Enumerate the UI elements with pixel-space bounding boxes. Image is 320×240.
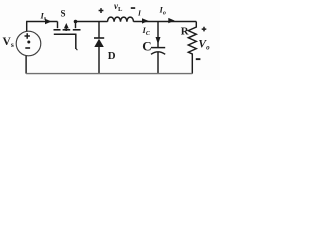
current arrow Io [168, 18, 175, 23]
current arrow I [142, 18, 149, 23]
resistor R [188, 22, 196, 74]
wire top rail right [134, 21, 197, 23]
capacitor top plate [151, 47, 165, 49]
body arrow [64, 23, 69, 28]
gate bar [54, 33, 77, 35]
voltage source Vs [16, 31, 41, 56]
channel segment 3 [73, 29, 81, 31]
Vs plus sign [25, 33, 30, 38]
svg-text:R: R [181, 25, 189, 37]
Vs minus sign [25, 47, 30, 49]
current arrow IC [156, 37, 161, 44]
Vs center dot [27, 41, 30, 44]
wire source bottom lead [25, 56, 27, 74]
diode cathode bar [94, 37, 104, 39]
svg-text:D: D [108, 50, 116, 62]
svg-text:S: S [61, 8, 66, 18]
label + of Vo [202, 27, 207, 32]
capacitor curved plate [151, 52, 165, 55]
label - of vL [131, 7, 135, 9]
svg-text:C: C [142, 38, 151, 53]
channel segment 2 [63, 29, 71, 31]
diode triangle [94, 39, 104, 47]
capacitor C branch wire [157, 22, 159, 48]
inductor L [108, 17, 134, 22]
wire top rail left [26, 21, 57, 23]
drain bar [57, 22, 59, 29]
source bar [75, 22, 77, 29]
junction dot node A [74, 20, 78, 24]
capacitor bottom lead [157, 52, 159, 73]
gate lead tip flick [76, 48, 78, 50]
diode D [94, 22, 104, 74]
label - of Vo [196, 58, 201, 60]
switch S (MOSFET) [54, 22, 81, 51]
wire source top lead [26, 22, 28, 32]
wire top rail mid [76, 21, 108, 23]
current arrow Is [45, 19, 52, 25]
gate lead down [75, 34, 77, 49]
channel segment 1 [54, 29, 61, 31]
bottom rail wire [26, 73, 192, 75]
label + of vL [99, 8, 104, 13]
